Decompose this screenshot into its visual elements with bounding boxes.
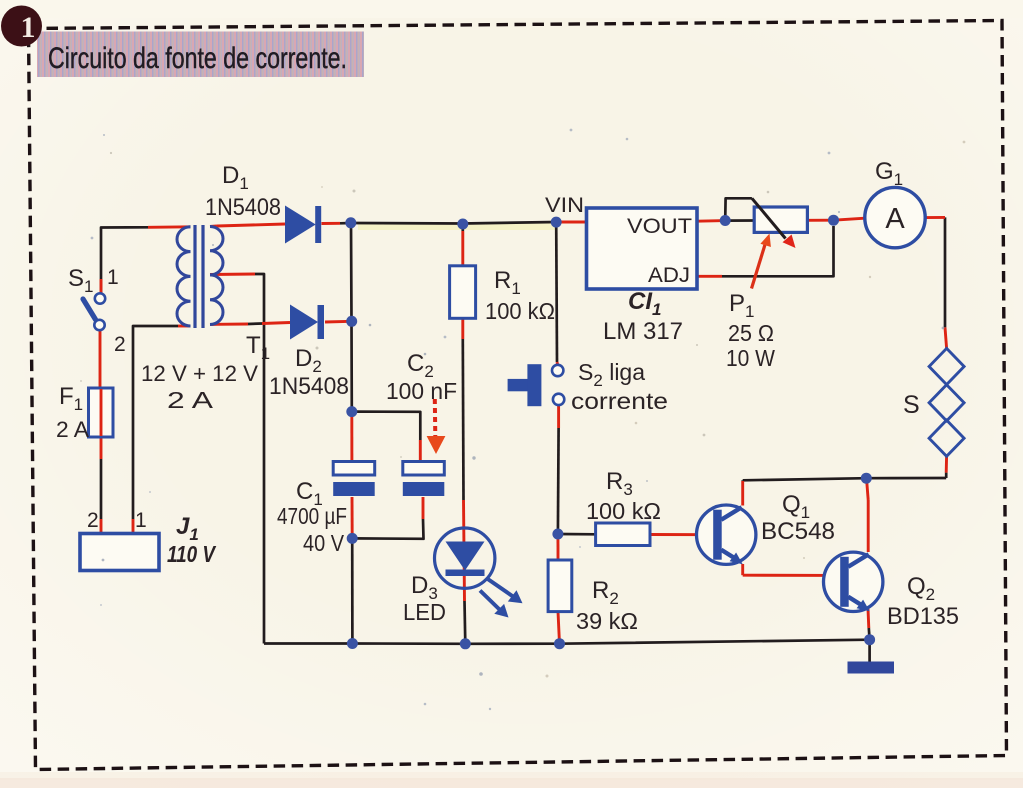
svg-text:2 A: 2 A [56,417,89,442]
svg-text:110 V: 110 V [167,541,216,567]
svg-text:40 V: 40 V [303,530,345,556]
svg-text:25 Ω: 25 Ω [728,320,774,346]
svg-text:VOUT: VOUT [627,215,692,238]
svg-text:1N5408: 1N5408 [205,194,281,221]
svg-text:BD135: BD135 [887,603,959,630]
svg-text:1N5408: 1N5408 [269,373,349,400]
svg-text:2 A: 2 A [167,387,214,413]
svg-text:1: 1 [135,509,147,532]
svg-text:4700 µF: 4700 µF [277,503,347,529]
svg-text:100 nF: 100 nF [386,378,457,404]
svg-text:100 kΩ: 100 kΩ [485,298,555,324]
svg-text:corrente: corrente [571,388,668,414]
svg-text:Circuito da fonte de corrente.: Circuito da fonte de corrente. [48,42,347,75]
svg-text:2: 2 [114,333,126,356]
svg-text:VIN: VIN [545,194,584,217]
svg-text:S: S [903,391,920,419]
svg-text:LM 317: LM 317 [603,318,683,345]
svg-text:1: 1 [107,266,119,289]
svg-text:1: 1 [21,11,36,44]
svg-text:LED: LED [403,599,446,625]
svg-text:A: A [885,203,905,235]
svg-text:12 V + 12 V: 12 V + 12 V [141,361,258,386]
svg-text:39 kΩ: 39 kΩ [576,608,638,634]
svg-text:100 kΩ: 100 kΩ [586,498,661,524]
svg-text:2: 2 [87,509,99,532]
svg-text:10 W: 10 W [726,345,775,371]
svg-text:ADJ: ADJ [648,264,690,287]
svg-text:BC548: BC548 [761,518,835,545]
